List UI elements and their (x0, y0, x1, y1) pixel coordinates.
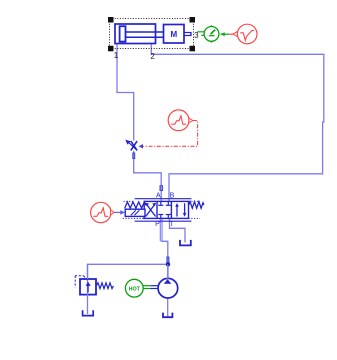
proportional 4/3 directional valve body (144, 201, 188, 218)
pump inlet line inside (167, 264, 169, 279)
valve top rail (135, 198, 192, 200)
relief valve arrow (87, 285, 89, 292)
signal wire to valve solenoid (114, 211, 120, 213)
valve bottom rail (135, 220, 192, 222)
svg-text:M: M (170, 30, 177, 39)
svg-text:HOT: HOT (129, 286, 141, 292)
svg-text:B: B (170, 193, 175, 200)
dashed signal wire source to throttle (142, 121, 197, 147)
wire junction to pump (167, 264, 169, 279)
thermal double line green part (143, 285, 150, 287)
valve source output triangle (110, 210, 114, 215)
middle square blocked ports (158, 201, 171, 218)
thermal double line blue part (150, 285, 158, 287)
wire from valve port P down to junction (159, 219, 161, 242)
svg-text:T: T (170, 221, 175, 228)
throttle valve (variable restrictor) X (131, 141, 137, 150)
wire from throttle to valve port A (134, 151, 162, 201)
wire from valve port T to tank (170, 219, 186, 243)
oil temperature source HOT (125, 279, 143, 297)
relief valve pilot dashed line (75, 276, 88, 288)
mass M box (164, 25, 185, 44)
pressure relief valve body (80, 279, 96, 295)
signal source (top, displacement set-point) circle (237, 24, 257, 44)
svg-text:1: 1 (114, 51, 119, 60)
tank under relief valve (83, 310, 94, 315)
signal wire red part (229, 33, 233, 35)
middle source output triangle (189, 118, 193, 123)
signal wire sensor to source (green part with arrow) (221, 33, 230, 35)
waveform in valve command source (93, 208, 108, 216)
signal source (middle, throttle command) circle (168, 110, 189, 131)
right square straight arrows (176, 206, 178, 217)
waveform in top source (240, 31, 254, 41)
signal arrow into throttle (blue) (139, 144, 144, 149)
svg-text:A: A (156, 193, 161, 200)
relief valve spring (97, 283, 114, 289)
waveform in middle source (171, 116, 186, 124)
cylinder C1 body (115, 24, 156, 44)
wire junction to relief valve (88, 264, 169, 279)
left spring above solenoid (125, 202, 146, 208)
pump (pressure source) circle (158, 278, 178, 298)
svg-text:2: 2 (150, 52, 155, 61)
dotted rail extensions (123, 201, 200, 218)
selection handle top-right (190, 17, 196, 23)
proportional solenoid box (125, 209, 145, 216)
cylinder piston (120, 26, 126, 41)
port 3 stub of mass (184, 32, 191, 34)
position sensor circle (green) (204, 27, 219, 42)
signal source (valve command) circle (91, 202, 111, 222)
junction node dot (166, 262, 170, 266)
tank at valve port T (180, 240, 191, 246)
wire from cylinder port 2 along top right down to valve port B (151, 44, 323, 202)
wire through relief valve to tank (87, 264, 89, 314)
wire connector cap below throttle (133, 153, 135, 159)
selection handle bottom-right (190, 46, 196, 52)
right spring (189, 202, 204, 209)
left square crossed arrows (146, 203, 156, 216)
svg-text:P: P (155, 221, 160, 228)
arrow into solenoid (120, 210, 125, 215)
sensor left stubs to port 3 (197, 31, 204, 33)
source output triangle (233, 31, 238, 36)
selection frame of cylinder (dotted) (110, 19, 194, 49)
wire pump to tank (167, 298, 169, 317)
throttle adjust arrow (128, 142, 137, 150)
selection handle top-left (108, 17, 114, 23)
sensor glyph (209, 35, 215, 37)
wire connector cap at valve A (160, 186, 163, 191)
cylinder rod lines (126, 31, 164, 33)
selection handle bottom-left (108, 46, 114, 52)
tank under pump (163, 313, 172, 318)
pump flow triangle (164, 279, 172, 284)
wire from cylinder port 1 to throttle (117, 44, 134, 141)
wire connector cap above junction (167, 257, 169, 263)
